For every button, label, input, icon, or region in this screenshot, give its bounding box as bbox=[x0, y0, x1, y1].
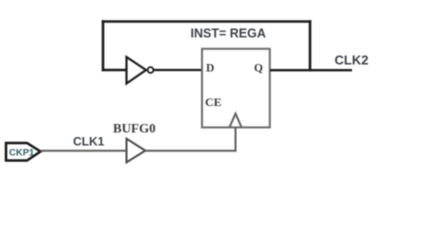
clock pin edge-trigger caret bbox=[230, 114, 242, 128]
wire feedback loop left vertical bbox=[102, 20, 105, 71]
wire buffer output horizontal bbox=[145, 150, 236, 152]
wire feedback loop top horizontal bbox=[102, 20, 312, 23]
svg-text:INST= REGA: INST= REGA bbox=[191, 27, 266, 41]
wire inverter input bbox=[102, 69, 127, 71]
wire inverter bubble to D pin bbox=[154, 69, 204, 71]
svg-text:CKP1: CKP1 bbox=[9, 148, 35, 159]
wire pad to buffer net CLK1 bbox=[40, 150, 127, 152]
wire feedback loop right vertical bbox=[309, 20, 312, 71]
inverter U2 output bubble bbox=[148, 67, 154, 73]
inverter U2 triangle bbox=[127, 57, 147, 84]
svg-text:CLK2: CLK2 bbox=[335, 53, 369, 68]
wire clock vertical riser bbox=[235, 127, 237, 152]
buffer BUFG0 triangle bbox=[127, 139, 146, 163]
svg-text:CLK1: CLK1 bbox=[73, 135, 105, 149]
input pad CKP1 bbox=[6, 143, 41, 161]
svg-text:BUFG0: BUFG0 bbox=[113, 121, 156, 136]
flip-flop REGA body bbox=[202, 49, 270, 128]
svg-text:D: D bbox=[206, 63, 214, 75]
wire Q output net CLK2 bbox=[270, 69, 352, 71]
svg-text:Q: Q bbox=[254, 63, 263, 75]
svg-text:CE: CE bbox=[205, 95, 222, 109]
